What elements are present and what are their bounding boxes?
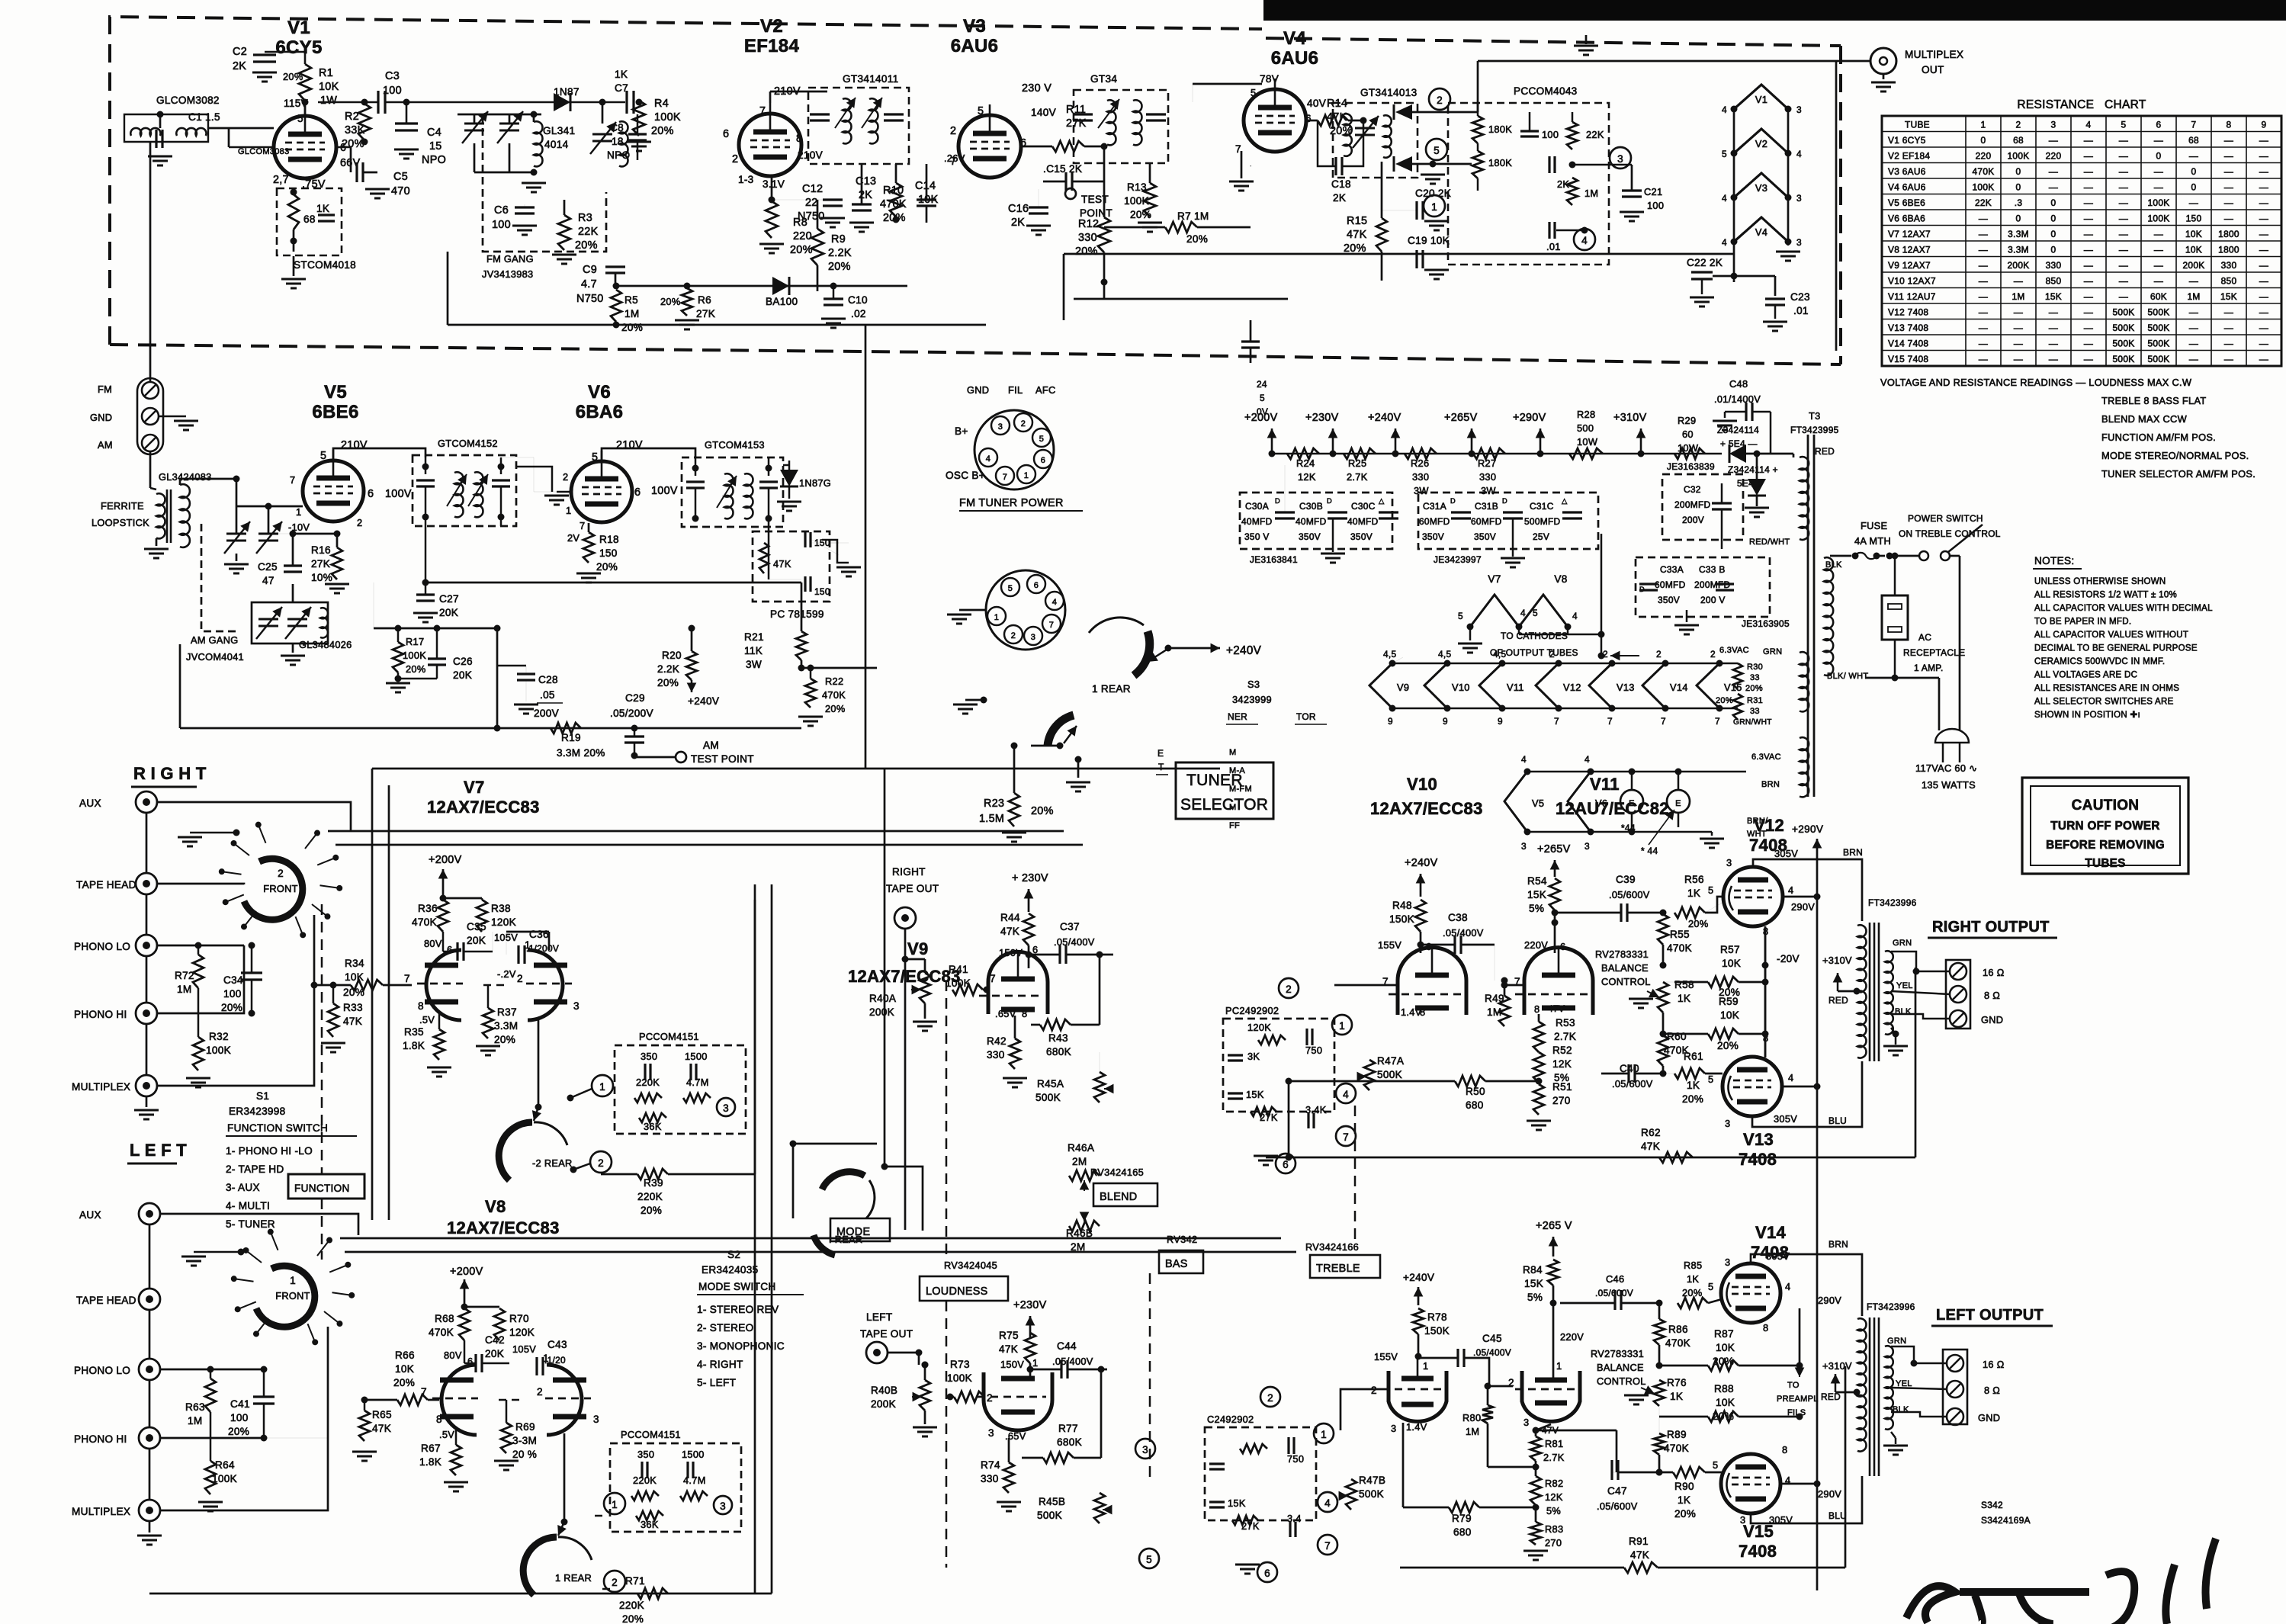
svg-text:C1 1.5: C1 1.5: [188, 111, 220, 123]
svg-text:6CY5: 6CY5: [275, 37, 322, 58]
svg-text:—: —: [2224, 150, 2233, 161]
svg-text:R21: R21: [744, 631, 764, 643]
svg-text:6: 6: [1264, 1568, 1270, 1579]
tube V10b cup: [1389, 1371, 1446, 1421]
svg-text:330: 330: [987, 1049, 1005, 1061]
svg-text:V3: V3: [1755, 182, 1767, 194]
svg-text:—: —: [2014, 275, 2023, 286]
svg-text:R62: R62: [1641, 1127, 1661, 1138]
svg-text:2: 2: [1286, 984, 1292, 995]
svg-text:5: 5: [2121, 119, 2127, 130]
svg-text:R28: R28: [1577, 409, 1595, 420]
svg-text:R58: R58: [1674, 979, 1694, 990]
circled nodes treble left: [1260, 1387, 1280, 1407]
svg-text:—: —: [2189, 150, 2198, 161]
svg-text:7: 7: [759, 105, 766, 117]
svg-text:5: 5: [1708, 1074, 1713, 1085]
svg-text:R34: R34: [345, 958, 364, 969]
svg-text:20K: 20K: [439, 607, 458, 618]
svg-text:RV342: RV342: [1167, 1234, 1197, 1245]
svg-text:12AX7/ECC83: 12AX7/ECC83: [447, 1218, 560, 1237]
svg-text:D: D: [1502, 497, 1507, 505]
wire V15 cathode BLU: [1751, 1476, 1862, 1523]
svg-text:V11 12AU7: V11 12AU7: [1888, 291, 1936, 302]
svg-text:20%: 20%: [1031, 805, 1054, 817]
wire V12 V13 pin8 bus: [1764, 926, 1767, 1058]
wire V6 plate 210V: [602, 448, 695, 461]
wire V2 plate to IFT: [769, 91, 772, 103]
svg-text:V6: V6: [588, 382, 611, 403]
svg-text:V8 12AX7: V8 12AX7: [1888, 244, 1931, 255]
svg-text:350: 350: [637, 1449, 654, 1460]
rotary switch S2 front: [256, 1266, 315, 1327]
AM gang dashed outline JVCOM4041: [201, 524, 236, 631]
wire V11b cathode: [1536, 1424, 1551, 1436]
svg-text:1- STEREO REV: 1- STEREO REV: [697, 1304, 779, 1315]
AM oscillator gang box GL3484026: [252, 602, 328, 644]
svg-text:—: —: [2119, 244, 2128, 255]
svg-text:0: 0: [2016, 213, 2021, 223]
svg-text:T: T: [1158, 762, 1164, 772]
tube V11a dome: [1524, 948, 1593, 1015]
svg-text:R77: R77: [1058, 1423, 1078, 1434]
wire AM lead: [149, 451, 152, 488]
svg-text:3.3M: 3.3M: [2008, 244, 2029, 255]
svg-text:LOUDNESS: LOUDNESS: [926, 1285, 988, 1298]
svg-text:1: 1: [1339, 1020, 1345, 1032]
heater V14: [1642, 663, 1665, 708]
svg-text:8: 8: [418, 1000, 424, 1012]
svg-text:7408: 7408: [1739, 1150, 1777, 1169]
svg-text:M: M: [1229, 803, 1236, 812]
svg-text:2.2K: 2.2K: [657, 663, 679, 675]
svg-text:1: 1: [290, 1275, 296, 1286]
svg-text:.65V: .65V: [995, 1008, 1016, 1019]
mode rotary wafer: [822, 1172, 865, 1189]
svg-text:220K: 220K: [637, 1191, 663, 1202]
svg-text:210V: 210V: [616, 439, 643, 451]
svg-text:GND: GND: [90, 412, 112, 423]
svg-text:C34: C34: [223, 974, 243, 986]
svg-text:5: 5: [1251, 87, 1256, 98]
svg-text:MODE: MODE: [836, 1226, 870, 1238]
svg-text:AFC: AFC: [1035, 384, 1056, 396]
svg-text:JE3163905: JE3163905: [1742, 618, 1790, 629]
svg-text:RED/WHT: RED/WHT: [1749, 538, 1790, 547]
svg-text:+240V: +240V: [1403, 1272, 1434, 1283]
svg-text:FRONT: FRONT: [275, 1290, 310, 1301]
svg-text:JV3413983: JV3413983: [482, 268, 533, 280]
svg-text:1 REAR: 1 REAR: [1092, 683, 1131, 695]
long wires V7 box: [372, 768, 1220, 770]
svg-text:MULTIPLEX: MULTIPLEX: [1905, 49, 1963, 60]
svg-text:LOOPSTICK: LOOPSTICK: [92, 517, 149, 528]
PC781599 dashed network: [753, 531, 830, 602]
svg-text:BAS: BAS: [1165, 1258, 1188, 1270]
svg-text:+265V: +265V: [1444, 412, 1478, 424]
svg-text:500K: 500K: [2113, 354, 2135, 364]
svg-text:10K: 10K: [1716, 1342, 1735, 1353]
svg-text:V6 6BA6: V6 6BA6: [1888, 213, 1925, 223]
svg-text:100: 100: [223, 988, 242, 1000]
svg-text:JE3163839: JE3163839: [1667, 461, 1715, 472]
tuner selector label box: [1176, 762, 1273, 819]
svg-text:2: 2: [1267, 1392, 1273, 1404]
svg-text:.05/200V: .05/200V: [610, 708, 653, 719]
svg-text:R84: R84: [1523, 1264, 1543, 1276]
svg-text:7: 7: [404, 973, 410, 984]
svg-text:TO BE PAPER IN MFD.: TO BE PAPER IN MFD.: [2034, 618, 2131, 627]
svg-text:150: 150: [599, 547, 618, 559]
svg-text:33: 33: [1750, 707, 1760, 716]
multiplex out jack: [1870, 48, 1896, 74]
svg-text:100V: 100V: [385, 488, 412, 500]
svg-text:4: 4: [1788, 884, 1793, 896]
detector diode 1: [1395, 104, 1412, 120]
svg-text:3: 3: [593, 1414, 599, 1425]
svg-text:ON TREBLE CONTROL: ON TREBLE CONTROL: [1899, 528, 2001, 539]
svg-text:2: 2: [1371, 1385, 1377, 1396]
svg-text:V2: V2: [1755, 138, 1767, 149]
svg-text:4- RIGHT: 4- RIGHT: [697, 1359, 743, 1370]
svg-text:47K: 47K: [999, 1343, 1018, 1355]
svg-text:33K: 33K: [345, 124, 365, 136]
long AM bus wire: [180, 727, 801, 730]
svg-text:—: —: [2049, 135, 2058, 146]
svg-text:RV3424166: RV3424166: [1305, 1241, 1359, 1253]
tube V10a dome: [1398, 948, 1466, 1015]
svg-text:6BE6: 6BE6: [312, 402, 358, 422]
svg-text:2: 2: [2016, 119, 2021, 130]
svg-text:FM: FM: [98, 384, 112, 395]
svg-text:100: 100: [492, 219, 511, 231]
svg-text:R68: R68: [435, 1313, 454, 1324]
svg-text:R56: R56: [1684, 874, 1704, 885]
svg-text:220K: 220K: [636, 1077, 660, 1088]
svg-text:NER: NER: [1228, 711, 1247, 722]
svg-text:20%: 20%: [1716, 696, 1733, 705]
svg-text:3.3M 20%: 3.3M 20%: [557, 747, 605, 759]
svg-text:C12: C12: [802, 183, 823, 195]
svg-text:40V: 40V: [1307, 98, 1326, 109]
svg-text:2: 2: [1021, 419, 1026, 428]
svg-text:2: 2: [612, 1577, 618, 1588]
svg-text:1: 1: [525, 939, 531, 951]
svg-text:GRN/WHT: GRN/WHT: [1733, 718, 1772, 727]
svg-text:5: 5: [1260, 393, 1265, 403]
svg-text:BALANCE: BALANCE: [1601, 962, 1649, 974]
svg-text:1.5M: 1.5M: [979, 813, 1004, 825]
svg-text:.05/600V: .05/600V: [1609, 889, 1650, 900]
svg-text:100K: 100K: [2148, 197, 2170, 208]
wire V13 cathode BLU: [1752, 1061, 1862, 1127]
svg-text:R85: R85: [1684, 1260, 1702, 1271]
svg-text:V13: V13: [1617, 682, 1635, 693]
svg-text:7: 7: [2191, 119, 2197, 130]
svg-text:.01: .01: [1546, 241, 1561, 252]
wire V12 pin4 to rail: [1783, 896, 1817, 898]
svg-text:0: 0: [2051, 213, 2056, 223]
svg-text:4: 4: [2086, 119, 2092, 130]
svg-text:BLEND MAX CCW: BLEND MAX CCW: [2101, 413, 2188, 425]
svg-text:—: —: [2084, 229, 2093, 239]
svg-text:0: 0: [1981, 135, 1986, 146]
svg-text:4A MTH: 4A MTH: [1854, 535, 1891, 547]
svg-text:C28: C28: [538, 674, 558, 685]
treble label box: [1310, 1255, 1380, 1278]
resistor 68: [288, 194, 299, 229]
svg-text:1800: 1800: [2218, 229, 2239, 239]
svg-text:C22 2K: C22 2K: [1687, 257, 1723, 268]
svg-text:305V: 305V: [1766, 1250, 1790, 1262]
svg-text:+240V: +240V: [1405, 857, 1438, 869]
svg-text:8: 8: [436, 1414, 442, 1425]
svg-text:JE3423997: JE3423997: [1434, 554, 1482, 565]
svg-text:6.3VAC: 6.3VAC: [1751, 753, 1781, 762]
svg-text:5%: 5%: [1546, 1505, 1561, 1516]
rotary switch S2 rear wafer: [523, 1537, 557, 1595]
rotary switch S1 rear wafer: [499, 1122, 532, 1180]
svg-text:TUBE: TUBE: [1905, 119, 1930, 130]
svg-text:7: 7: [1003, 473, 1007, 482]
svg-text:1K: 1K: [316, 203, 329, 214]
svg-text:5: 5: [1008, 584, 1013, 593]
svg-text:20K: 20K: [485, 1348, 504, 1359]
svg-text:BALANCE: BALANCE: [1597, 1362, 1644, 1373]
wire V10b cathode to R79: [1402, 1423, 1405, 1507]
svg-text:—: —: [2119, 229, 2128, 239]
svg-text:4: 4: [1722, 237, 1727, 248]
supply tap +200V: [1271, 428, 1273, 454]
svg-text:R90: R90: [1674, 1481, 1694, 1492]
svg-text:R53: R53: [1556, 1017, 1575, 1029]
svg-text:+ 230V: + 230V: [1012, 872, 1048, 884]
svg-text:TURN OFF POWER: TURN OFF POWER: [2050, 820, 2160, 833]
multiplex feed wire: [1477, 61, 1479, 112]
circled 5 bass: [1139, 1549, 1159, 1568]
svg-text:.5V: .5V: [419, 1014, 435, 1025]
svg-text:BLK/ WHT: BLK/ WHT: [1827, 672, 1868, 681]
svg-text:V10: V10: [1452, 682, 1470, 693]
svg-text:350V: 350V: [1350, 531, 1373, 542]
svg-text:3: 3: [1796, 193, 1802, 204]
speaker terminals left: [1943, 1350, 1967, 1424]
input connector FM GND AM: [137, 378, 163, 454]
tuner V1-V4 heater chain: [1734, 85, 1788, 109]
svg-text:4: 4: [1722, 193, 1727, 204]
svg-text:3W: 3W: [746, 659, 762, 670]
svg-text:* 44: * 44: [1641, 846, 1658, 856]
svg-text:—: —: [2049, 323, 2058, 333]
svg-text:—: —: [2119, 260, 2128, 271]
variable capacitor FM 1: [464, 123, 484, 125]
svg-text:UNLESS OTHERWISE SHOWN: UNLESS OTHERWISE SHOWN: [2034, 577, 2166, 586]
svg-text:STCOM4018: STCOM4018: [294, 259, 356, 271]
svg-text:R82: R82: [1545, 1478, 1563, 1489]
svg-text:100K: 100K: [206, 1045, 231, 1056]
svg-text:3- AUX: 3- AUX: [226, 1182, 260, 1193]
svg-text:470K: 470K: [1667, 942, 1692, 954]
svg-text:PCCOM4043: PCCOM4043: [1514, 85, 1578, 97]
svg-text:20%: 20%: [342, 138, 364, 150]
svg-text:3: 3: [1617, 153, 1623, 165]
svg-text:—: —: [1979, 338, 1988, 348]
AC receptacle: [1882, 595, 1908, 640]
svg-text:150K: 150K: [1389, 913, 1414, 925]
svg-text:20%: 20%: [596, 561, 618, 573]
svg-text:500K: 500K: [2113, 323, 2135, 333]
svg-text:60MFD: 60MFD: [1471, 516, 1502, 527]
svg-text:0: 0: [2191, 166, 2197, 177]
svg-text:—: —: [2259, 323, 2268, 333]
svg-text:4,5: 4,5: [1383, 649, 1397, 660]
svg-text:20 %: 20 %: [512, 1449, 537, 1460]
svg-text:3.3M: 3.3M: [494, 1020, 518, 1032]
svg-text:TREBLE 8 BASS FLAT: TREBLE 8 BASS FLAT: [2101, 395, 2206, 406]
svg-text:C20 2K: C20 2K: [1415, 188, 1451, 199]
svg-text:20%: 20%: [228, 1426, 249, 1437]
mode wires: [793, 1143, 877, 1145]
svg-text:FM GANG: FM GANG: [486, 253, 534, 265]
svg-text:R42: R42: [987, 1035, 1007, 1047]
svg-text:8: 8: [2227, 119, 2232, 130]
svg-text:R75: R75: [999, 1330, 1019, 1341]
svg-text:RED: RED: [1815, 446, 1835, 457]
svg-text:120K: 120K: [1247, 1022, 1271, 1033]
svg-text:V8: V8: [1554, 573, 1567, 585]
circled pin 4: [1574, 229, 1595, 250]
svg-text:GND: GND: [1978, 1412, 2000, 1423]
svg-text:BRN: BRN: [1828, 1239, 1848, 1250]
svg-text:8: 8: [1022, 1008, 1027, 1019]
svg-text:Z3424114: Z3424114: [1717, 425, 1759, 435]
svg-text:YEL: YEL: [1896, 981, 1913, 990]
svg-text:C5: C5: [393, 171, 408, 183]
svg-text:1M: 1M: [2187, 291, 2200, 302]
svg-text:4,5: 4,5: [1493, 649, 1507, 660]
svg-text:V1 6CY5: V1 6CY5: [1888, 135, 1926, 146]
svg-text:330: 330: [1479, 471, 1496, 483]
svg-text:C2492902: C2492902: [1207, 1414, 1254, 1425]
svg-text:—: —: [2154, 166, 2163, 177]
svg-text:+310V: +310V: [1822, 955, 1852, 966]
svg-text:ALL VOLTAGES ARE DC: ALL VOLTAGES ARE DC: [2034, 671, 2137, 680]
svg-text:—: —: [1979, 213, 1988, 223]
wire V10 grid: [1334, 984, 1398, 987]
svg-text:3: 3: [573, 1000, 580, 1012]
variable capacitor AM RF: [226, 533, 246, 535]
svg-text:LEFT OUTPUT: LEFT OUTPUT: [1936, 1307, 2044, 1324]
svg-text:4: 4: [1584, 754, 1590, 765]
svg-text:.05/400V: .05/400V: [1052, 1356, 1093, 1367]
svg-text:2: 2: [1603, 649, 1608, 660]
svg-text:—: —: [1979, 244, 1988, 255]
svg-text:36K: 36K: [641, 1519, 659, 1530]
svg-text:12K: 12K: [1552, 1058, 1572, 1070]
svg-text:V15: V15: [1724, 682, 1742, 693]
svg-text:C6: C6: [494, 204, 509, 217]
svg-text:1: 1: [296, 506, 301, 518]
svg-text:—: —: [2259, 181, 2268, 192]
svg-text:R33: R33: [343, 1002, 363, 1013]
svg-text:1: 1: [994, 613, 999, 622]
svg-text:R I G H T: R I G H T: [133, 764, 207, 783]
svg-text:—: —: [2119, 213, 2128, 223]
svg-text:2: 2: [1437, 95, 1443, 106]
svg-text:+310V: +310V: [1822, 1360, 1852, 1372]
svg-text:4: 4: [1722, 104, 1727, 115]
capacitor 1K: [318, 213, 335, 216]
svg-text:—: —: [2259, 354, 2268, 364]
svg-text:FUNCTION AM/FM POS.: FUNCTION AM/FM POS.: [2101, 432, 2216, 443]
svg-text:GND: GND: [967, 384, 989, 396]
wire V15 pin4: [1780, 1483, 1817, 1485]
svg-text:200K: 200K: [2008, 260, 2030, 271]
svg-text:R45A: R45A: [1037, 1078, 1064, 1090]
tube V8a: [441, 1365, 477, 1435]
svg-text:2V: 2V: [567, 532, 580, 544]
svg-text:RED: RED: [1828, 995, 1848, 1006]
svg-text:—: —: [2049, 307, 2058, 317]
svg-text:290V: 290V: [1791, 901, 1815, 913]
svg-text:5: 5: [1458, 611, 1463, 621]
wire IFT1 to V6 grid: [501, 457, 557, 492]
svg-text:1-3: 1-3: [738, 174, 754, 185]
svg-text:—: —: [2014, 323, 2023, 333]
svg-text:—: —: [2189, 338, 2198, 348]
svg-text:LEFT: LEFT: [866, 1311, 892, 1323]
tube socket FM tuner power: [974, 410, 1054, 489]
svg-text:V10: V10: [1407, 775, 1437, 794]
rotary switch tuner selector wafer: [1089, 618, 1144, 633]
svg-text:R22: R22: [825, 676, 843, 687]
svg-text:1: 1: [1556, 1360, 1562, 1372]
svg-text:7408: 7408: [1739, 1542, 1777, 1561]
svg-text:RV2783331: RV2783331: [1595, 948, 1649, 960]
svg-text:—: —: [2119, 166, 2128, 177]
S1 wires to V7: [328, 830, 1064, 833]
svg-text:PHONO LO: PHONO LO: [74, 941, 130, 952]
svg-text:R45B: R45B: [1039, 1496, 1065, 1507]
svg-text:500K: 500K: [1377, 1069, 1402, 1080]
svg-text:6: 6: [1020, 137, 1026, 149]
svg-text:6: 6: [1041, 456, 1045, 465]
svg-text:C46: C46: [1606, 1273, 1624, 1285]
svg-text:2: 2: [598, 1157, 604, 1169]
svg-text:V12: V12: [1754, 816, 1784, 835]
svg-text:NPO: NPO: [607, 149, 630, 161]
svg-text:2K: 2K: [1011, 217, 1025, 229]
svg-text:R37: R37: [497, 1006, 517, 1018]
svg-text:V4 6AU6: V4 6AU6: [1888, 181, 1926, 192]
svg-text:R88: R88: [1714, 1383, 1734, 1395]
svg-text:80V: 80V: [424, 938, 442, 949]
svg-text:C30C: C30C: [1351, 501, 1376, 512]
svg-text:BLEND: BLEND: [1100, 1191, 1138, 1203]
svg-text:7: 7: [580, 520, 585, 531]
tube V13 7408: [1723, 1057, 1782, 1116]
svg-text:PREAMPL: PREAMPL: [1777, 1395, 1819, 1404]
svg-text:6: 6: [2156, 119, 2162, 130]
svg-text:R81: R81: [1545, 1438, 1563, 1449]
svg-text:M-FM: M-FM: [1229, 785, 1252, 794]
heater V6: [1568, 772, 1591, 832]
svg-text:100K: 100K: [403, 650, 426, 661]
svg-text:330: 330: [1412, 471, 1429, 483]
svg-text:3.1V: 3.1V: [763, 178, 785, 190]
svg-text:V5: V5: [324, 382, 347, 403]
svg-text:1K: 1K: [1678, 1494, 1690, 1506]
